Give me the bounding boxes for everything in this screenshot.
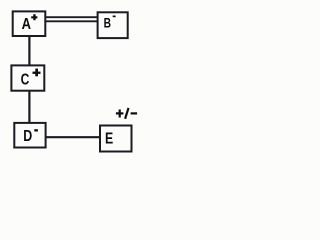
box D [14,123,45,148]
svg-text:B: B [104,16,111,31]
wire C-D [28,91,30,124]
label C superscript plus [33,69,41,77]
box A [13,11,46,36]
svg-text:A: A [22,16,31,33]
box B [98,12,128,38]
label B superscript minus [113,16,116,18]
label +/- plus [116,110,124,118]
label D superscript minus [34,129,38,131]
box E [100,126,132,152]
svg-text:D: D [23,127,32,145]
svg-text:C: C [21,72,30,89]
wire: double line A-B [46,17,99,21]
wire D-E [46,136,102,138]
label +/- minus [131,112,138,114]
label +/- slash [125,108,128,119]
label A superscript plus [31,14,37,20]
box C [11,65,44,90]
wire A-C [28,36,30,66]
svg-text:E: E [105,131,113,148]
